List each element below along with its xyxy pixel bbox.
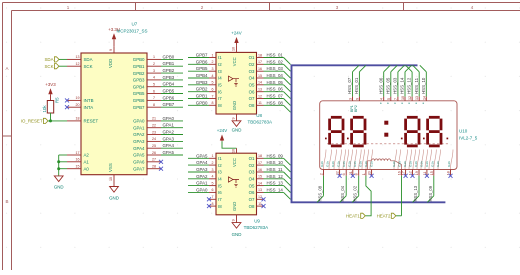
svg-text:4: 4 (212, 74, 214, 78)
svg-text:10: 10 (109, 177, 113, 181)
svg-text:HSS_03: HSS_03 (267, 66, 284, 71)
svg-text:HSS_14: HSS_14 (400, 77, 405, 94)
U8 pin 17 O2 (249, 60, 264, 67)
svg-text:7: 7 (212, 94, 214, 98)
svg-text:HSS_10: HSS_10 (267, 160, 284, 165)
svg-text:25: 25 (152, 144, 156, 148)
svg-text:2: 2 (212, 60, 214, 64)
U10 bottom pin 8 net HSS_02 (352, 170, 359, 203)
U8 pin 16 O3 (249, 67, 264, 74)
wire net GPA2 (161, 134, 183, 136)
U10 bottom pin 6 net HSS_04 (340, 170, 347, 203)
svg-text:9: 9 (232, 118, 236, 120)
svg-text:27: 27 (152, 158, 156, 162)
U7 pin 24 GPA3 (133, 137, 161, 144)
heater coil (367, 159, 401, 169)
U8 reference text (248, 113, 273, 125)
U10 top pin 13 net HSS_11 (413, 65, 420, 101)
svg-text:20: 20 (76, 103, 80, 107)
svg-text:21: 21 (152, 117, 156, 121)
U10 bottom pin 23 (368, 170, 374, 178)
svg-text:GPA0: GPA0 (196, 187, 208, 192)
svg-text:GND: GND (232, 101, 237, 110)
ic U7 MCP23017_SS body (81, 22, 148, 175)
svg-text:I4: I4 (218, 76, 222, 81)
svg-text:G1b: G1b (320, 161, 324, 167)
svg-text:HSS_09: HSS_09 (267, 153, 284, 158)
U9 pin 18 O1 (249, 154, 264, 161)
wire net GPA1 (161, 127, 183, 129)
svg-text:B: B (5, 199, 8, 204)
svg-text:15: 15 (76, 165, 80, 169)
svg-text:1: 1 (153, 55, 155, 59)
svg-text:GPA5: GPA5 (196, 153, 208, 158)
svg-text:G1b: G1b (403, 161, 407, 167)
wire net HSS_06 to bus (264, 91, 284, 93)
U7 pin 7 GPB6 (133, 96, 161, 103)
U10 top pin 9 net HSS_01 (354, 65, 366, 101)
U9 pin GND 9 with GND (232, 215, 242, 237)
svg-text:GPA1: GPA1 (133, 125, 145, 130)
no-connect GPA6 (159, 160, 163, 164)
U8 pin 14 O5 (249, 81, 264, 88)
svg-text:GPB7: GPB7 (133, 105, 145, 110)
power +3V3 (45, 82, 56, 101)
wire net GPA4 (161, 147, 183, 149)
svg-text:GPA3: GPA3 (133, 139, 145, 144)
svg-text:G1b: G1b (425, 161, 429, 167)
wire net HSS_07 to bus (264, 98, 284, 100)
svg-text:A0: A0 (84, 166, 90, 171)
svg-text:VCC: VCC (232, 158, 237, 167)
svg-text:O3: O3 (249, 69, 255, 74)
svg-text:6: 6 (153, 89, 155, 93)
U10 bottom pin 15 net HSS_09 (427, 170, 434, 203)
U9 pin 17 O2 (249, 161, 264, 168)
svg-text:GPB2: GPB2 (196, 87, 208, 92)
svg-text:12: 12 (76, 62, 80, 66)
U8 pin 7 I7 (209, 94, 222, 101)
svg-text:G1b: G1b (353, 161, 357, 167)
hier label HEAT1 (346, 213, 365, 218)
svg-text:GPB6: GPB6 (163, 95, 175, 100)
svg-text:VSS: VSS (108, 163, 113, 172)
U9 pin 7 I7 (209, 195, 222, 202)
U9 pin 1 I1 (209, 154, 222, 161)
U7 pin 20 INTA (67, 103, 93, 110)
svg-text:16: 16 (76, 158, 80, 162)
U10 bottom pin 2 net HSS_08 (317, 170, 324, 203)
svg-text:1: 1 (362, 173, 366, 175)
wire +24V to U9 VCC (222, 141, 237, 148)
wire net GPA1 (188, 185, 209, 187)
svg-text:GND: GND (232, 128, 242, 133)
wire A0 (59, 168, 67, 170)
U7 pin VSS 10 with GND (108, 163, 119, 200)
U8 pin GND 9 with GND (232, 114, 242, 133)
wire A2 (59, 154, 67, 156)
U9 pin 3 I3 (209, 168, 222, 175)
svg-text:GPB3: GPB3 (163, 75, 175, 80)
hier label SCK (44, 64, 59, 69)
svg-text:HSS_13: HSS_13 (267, 181, 284, 186)
wire net HSS_10 to bus (264, 164, 284, 166)
svg-text:O5: O5 (249, 83, 255, 88)
U7 pin VDD 9 with +3.3V power (108, 27, 120, 68)
svg-text:HSS_10: HSS_10 (421, 77, 426, 94)
wire net GPA0 (188, 191, 209, 193)
svg-text:13: 13 (258, 88, 262, 92)
svg-text:HSS_08: HSS_08 (318, 185, 323, 201)
svg-text:O3: O3 (249, 170, 255, 175)
svg-text:GPA5: GPA5 (163, 150, 175, 155)
wire net HSS_04 to bus (264, 77, 284, 79)
U8 pin 4 I4 (209, 74, 222, 81)
svg-text:G1b: G1b (342, 161, 346, 167)
svg-text:GPB4: GPB4 (196, 73, 208, 78)
svg-text:15: 15 (258, 74, 262, 78)
svg-text:HEAT1: HEAT1 (346, 213, 360, 218)
wire net HSS_11 to bus (264, 171, 284, 173)
svg-text:2: 2 (153, 62, 155, 66)
junction reset net (49, 119, 52, 122)
svg-text:HSS_14: HSS_14 (267, 187, 284, 192)
U7 pin 16 A1 (67, 158, 89, 165)
display internal names BP1 BP2 (350, 105, 358, 112)
svg-text:+3V3: +3V3 (45, 82, 56, 87)
ic U9 TBD62783A body (216, 153, 257, 215)
svg-text:GPA4: GPA4 (196, 160, 208, 165)
svg-text:O5: O5 (249, 183, 255, 188)
svg-text:18: 18 (258, 154, 262, 158)
U8 pin 11 O8 (249, 101, 264, 108)
svg-text:I3: I3 (218, 170, 222, 175)
svg-text:GPB5: GPB5 (133, 91, 145, 96)
wire net GPB7 (188, 57, 209, 59)
svg-text:U10: U10 (459, 128, 468, 133)
wire net GPB2 (188, 91, 209, 93)
svg-text:INTA: INTA (84, 105, 94, 110)
svg-text:I7: I7 (218, 96, 222, 101)
U7 pin 6 GPB5 (133, 89, 161, 96)
svg-text:G1b: G1b (447, 161, 451, 167)
U7 pin 18 RESET (67, 117, 98, 124)
svg-text:TBD62783A: TBD62783A (248, 119, 273, 124)
svg-text:GPB0: GPB0 (133, 57, 145, 62)
svg-text:O7: O7 (249, 197, 255, 202)
wire resistor to reset net (50, 113, 52, 121)
wire net HSS_02 to bus (264, 63, 284, 65)
svg-text:18: 18 (76, 117, 80, 121)
U9 pin 4 I4 (209, 175, 222, 182)
svg-text:I8: I8 (218, 103, 222, 108)
wire A-common vertical (58, 155, 60, 176)
U7 pin 26 GPA5 (133, 151, 161, 158)
svg-text:8: 8 (153, 103, 155, 107)
U9 pin 15 O4 (249, 175, 264, 182)
svg-text:VCC: VCC (232, 57, 237, 66)
wire net GPB5 (188, 70, 209, 72)
svg-text:IVL2-7_5: IVL2-7_5 (459, 135, 478, 140)
U9 pin VCC 10 (232, 148, 237, 153)
svg-text:GPA6: GPA6 (133, 160, 145, 165)
svg-text:O2: O2 (249, 62, 255, 67)
svg-text:G1b: G1b (337, 161, 341, 167)
svg-text:HSS_12: HSS_12 (407, 77, 412, 94)
svg-text:O1: O1 (249, 156, 255, 161)
U8 pin 3 I3 (209, 67, 222, 74)
svg-text:BP2: BP2 (354, 105, 358, 112)
svg-text:U8: U8 (256, 113, 262, 118)
U10 bottom pin 22 (336, 170, 342, 178)
hier label IO_RESET (21, 118, 48, 123)
junction A0 (57, 167, 60, 170)
wire net HSS_13 to bus (264, 185, 284, 187)
wire net GPB0 (161, 58, 183, 60)
U8 pin 13 O6 (249, 88, 264, 95)
svg-text:HSS_11: HSS_11 (414, 77, 419, 94)
svg-text:22: 22 (152, 124, 156, 128)
svg-text:O4: O4 (249, 177, 255, 182)
svg-text:GPB2: GPB2 (163, 68, 175, 73)
svg-text:9: 9 (109, 49, 113, 51)
svg-text:GPB0: GPB0 (163, 54, 175, 59)
U7 pin 21 GPA0 (133, 117, 161, 124)
svg-text:14: 14 (422, 96, 426, 100)
U8 pin 15 O4 (249, 74, 264, 81)
svg-text:GPA7: GPA7 (133, 166, 145, 171)
no-connect U7 INTB (65, 98, 69, 102)
svg-text:10k: 10k (42, 105, 47, 113)
svg-text:R5: R5 (55, 97, 60, 103)
U10 top pin 14 net HSS_10 (420, 65, 427, 101)
svg-text:I6: I6 (218, 190, 222, 195)
U10 bottom pin 16 (396, 170, 402, 216)
svg-text:5: 5 (153, 83, 155, 87)
no-connect U9 I8 (207, 204, 211, 208)
svg-text:HSS_05: HSS_05 (385, 77, 390, 94)
svg-text:+3.3V: +3.3V (108, 27, 120, 32)
svg-text:26: 26 (152, 151, 156, 155)
svg-text:15: 15 (430, 171, 434, 175)
svg-text:HSS_08: HSS_08 (267, 100, 284, 105)
svg-text:HSS_11: HSS_11 (267, 167, 284, 172)
U7 pin 2 GPB1 (133, 62, 161, 69)
wire SCK (59, 65, 67, 67)
hier label HEAT2 (377, 213, 396, 218)
U7 pin 17 A2 (67, 151, 89, 158)
svg-text:GND: GND (54, 185, 64, 190)
U10 top pin 12 net HSS_12 (406, 65, 413, 101)
digit 3 (406, 117, 419, 146)
svg-text:TBD62783A: TBD62783A (244, 225, 269, 230)
svg-text:6: 6 (212, 88, 214, 92)
svg-text:O7: O7 (249, 96, 255, 101)
svg-text:3: 3 (349, 98, 353, 100)
svg-text:GPB4: GPB4 (133, 84, 145, 89)
svg-text:14: 14 (258, 181, 262, 185)
svg-text:O6: O6 (249, 190, 255, 195)
svg-text:SCK: SCK (84, 64, 93, 69)
svg-text:9: 9 (355, 98, 359, 100)
wire net GPA5 (188, 157, 209, 159)
svg-text:3: 3 (212, 67, 214, 71)
svg-text:I1: I1 (218, 156, 222, 161)
svg-text:10: 10 (401, 96, 405, 100)
svg-text:HSS_07: HSS_07 (267, 94, 284, 99)
svg-text:13: 13 (76, 55, 80, 59)
U7 pin 5 GPB4 (133, 83, 161, 90)
svg-text:10: 10 (232, 47, 236, 51)
U9 pin 11 O8 (249, 202, 264, 209)
svg-text:I6: I6 (218, 89, 222, 94)
svg-text:HSS_04: HSS_04 (340, 185, 345, 201)
svg-text:GPB7: GPB7 (196, 53, 208, 58)
svg-text:G1b: G1b (420, 161, 424, 167)
svg-text:GPA2: GPA2 (163, 130, 175, 135)
wire net HSS_01 to bus (264, 57, 284, 59)
svg-text:GPA0: GPA0 (133, 119, 145, 124)
wire IO_RESET to RESET pin (48, 120, 67, 122)
U8 pin VCC 10 with +24V power (231, 31, 241, 53)
U10 top pin 7 net HSS_03 (393, 65, 405, 101)
svg-text:A1: A1 (84, 160, 90, 165)
svg-text:SDA: SDA (84, 57, 93, 62)
digit 1 (330, 117, 343, 146)
svg-text:O8: O8 (249, 103, 255, 108)
svg-text:RESET: RESET (84, 119, 99, 124)
svg-text:8: 8 (212, 101, 214, 105)
wire net GPB3 (161, 79, 183, 81)
svg-text:HSS_04: HSS_04 (267, 73, 284, 78)
svg-text:7: 7 (153, 96, 155, 100)
wire net GPB7 (161, 106, 183, 108)
svg-text:15: 15 (258, 175, 262, 179)
svg-text:GPB7: GPB7 (163, 102, 175, 107)
no-connect U9 O7 (262, 197, 266, 201)
wire net HSS_12 to bus (264, 178, 284, 180)
wire net GPB2 (161, 72, 183, 74)
U8 pin 6 I6 (209, 88, 222, 95)
wire net HSS_09 to bus (264, 157, 284, 159)
svg-text:GPA1: GPA1 (196, 181, 208, 186)
U8 pin 5 I5 (209, 81, 222, 88)
svg-text:IO_RESET: IO_RESET (21, 119, 43, 124)
svg-text:G1b: G1b (436, 161, 440, 167)
svg-text:U9: U9 (254, 219, 260, 224)
U7 pin 19 INTB (67, 96, 94, 103)
svg-text:GPB5: GPB5 (196, 66, 208, 71)
U10 top pin 3 net HSS_07 (347, 65, 359, 101)
ground for address pins (54, 176, 64, 190)
svg-text:GND: GND (232, 202, 237, 211)
svg-text:1: 1 (212, 53, 214, 57)
svg-text:2: 2 (212, 161, 214, 165)
no-connect GPA7 (159, 167, 163, 171)
U7 pin 27 GPA6 (133, 158, 161, 165)
svg-text:19: 19 (76, 96, 80, 100)
svg-text:G1b: G1b (398, 161, 402, 167)
U10 bottom pin 11 (423, 170, 429, 178)
U10 bottom pin 18 (447, 170, 453, 178)
U9 pin 6 I6 (209, 188, 222, 195)
svg-text:GPA0: GPA0 (163, 116, 175, 121)
svg-text:3: 3 (153, 69, 155, 73)
svg-text:I4: I4 (218, 177, 222, 182)
svg-text:GPB3: GPB3 (196, 80, 208, 85)
wire net GPB3 (188, 84, 209, 86)
wire net GPB1 (161, 65, 183, 67)
svg-text:G1b: G1b (326, 161, 330, 167)
svg-text:GPB1: GPB1 (133, 64, 145, 69)
svg-text:8: 8 (355, 173, 359, 175)
svg-text:HSS_01: HSS_01 (354, 77, 359, 94)
svg-text:11: 11 (258, 202, 262, 206)
U7 pin 22 GPA1 (133, 124, 161, 131)
wire net GPB4 (188, 77, 209, 79)
svg-text:1: 1 (212, 154, 214, 158)
svg-text:VDD: VDD (108, 59, 113, 68)
resistor R5 10k (42, 97, 60, 113)
svg-text:O2: O2 (249, 163, 255, 168)
svg-text:17: 17 (76, 151, 80, 155)
wire net GPA0 (161, 120, 183, 122)
U8 pin 18 O1 (249, 53, 264, 60)
svg-text:14: 14 (258, 81, 262, 85)
U8 pin 2 I2 (209, 60, 222, 67)
U7 pin 4 GPB3 (133, 76, 161, 83)
svg-text:5: 5 (212, 81, 214, 85)
U7 pin 1 GPB0 (133, 55, 161, 62)
wire net HSS_03 to bus (264, 70, 284, 72)
svg-text:I1: I1 (218, 55, 222, 60)
wire net HSS_05 to bus (264, 84, 284, 86)
svg-text:I2: I2 (218, 163, 222, 168)
svg-text:7: 7 (212, 195, 214, 199)
svg-text:GPB2: GPB2 (133, 71, 145, 76)
svg-text:24: 24 (152, 137, 156, 141)
svg-text:12: 12 (258, 195, 262, 199)
svg-text:HSS_06: HSS_06 (378, 77, 383, 94)
svg-text:17: 17 (258, 161, 262, 165)
svg-text:O1: O1 (249, 55, 255, 60)
U7 pin 12 SCK (67, 62, 93, 69)
digit 4 (428, 117, 441, 146)
no-connect U7 INTA (65, 105, 69, 109)
svg-text:+24V: +24V (231, 31, 241, 36)
svg-text:GPB1: GPB1 (196, 94, 208, 99)
U9 pin 8 I8 (209, 202, 222, 209)
U7 pin 15 A0 (67, 165, 89, 172)
svg-text:O6: O6 (249, 89, 255, 94)
svg-text:12: 12 (408, 96, 412, 100)
display U10 IVL2-7_5 body (320, 101, 478, 170)
wire net GPA3 (161, 140, 183, 142)
ic U8 TBD62783A body (216, 52, 257, 114)
U7 pin 13 SDA (67, 55, 93, 62)
svg-text:GPA2: GPA2 (133, 132, 145, 137)
wire net GPB6 (188, 63, 209, 65)
svg-text:GPA1: GPA1 (163, 123, 175, 128)
svg-text:GPB6: GPB6 (133, 98, 145, 103)
U7 pin 23 GPA2 (133, 130, 161, 137)
U9 pin 13 O6 (249, 188, 264, 195)
svg-text:SCK: SCK (44, 64, 53, 69)
colon (384, 121, 388, 137)
svg-text:HEAT2: HEAT2 (377, 213, 391, 218)
svg-text:9: 9 (232, 219, 236, 221)
svg-text:23: 23 (152, 130, 156, 134)
